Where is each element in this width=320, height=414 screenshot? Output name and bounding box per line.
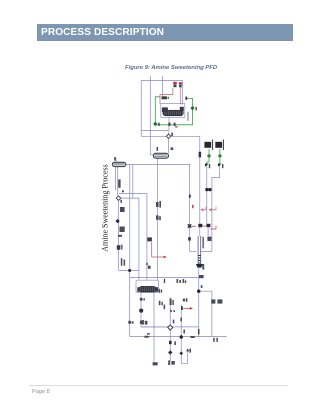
dark label N1 top [162,96,170,99]
green valve GV3 under box K1 [207,154,211,158]
label gray right of E1 [187,112,188,121]
label T above V2 [157,147,159,151]
label ticks y279 x164 [164,279,165,283]
label I above J2 [201,285,203,288]
label on x117 lower [120,227,125,233]
wire top header horizontal [141,80,183,82]
vessel V2 drum [153,153,168,158]
label arrow on y337 left [144,336,150,338]
dark valve on green top leg [185,97,187,100]
label under cone [202,264,204,270]
label small x118 y235 [118,235,122,237]
label tick y190 [122,190,124,192]
wire E2 outlet left vertical to bottom corner [141,293,168,327]
label blue at x199 y158 [199,152,202,158]
wire red drop into E1 [179,88,181,105]
label ticks y340 right [213,338,218,342]
label arrow on y337 mid [191,336,196,338]
label NL pair on y277 line [177,279,187,283]
wire from valve2 elbow [212,167,220,241]
footer rule [29,385,288,386]
column bottom cone [196,264,203,268]
label x147 arrow into E2 [146,262,148,265]
E1 right channel head [180,107,184,112]
valve diamond D2 on bleed line [168,325,173,330]
wire red dashed control top [160,88,173,104]
pump P3 dark valve [206,224,210,227]
label on x157 lower valve [156,215,159,219]
junction dot J1 [128,269,131,272]
wire x199.8 column feed [199,136,201,236]
wire column left join [190,250,197,252]
vessel V1 drum [112,162,126,166]
wire E1 bottom outlet jog to trunk [141,117,169,130]
wire green left leg [155,97,192,125]
junction dot J3 [180,335,183,338]
figure caption [125,65,217,71]
label ticks x120 y258 [121,258,123,266]
red flag label S2 [179,82,182,87]
wire x198.7 column tail to junction dot [198,268,200,337]
check valve CV1 [205,164,209,167]
green valve GV1 [153,122,157,127]
wire trunk x162 stub [161,76,163,96]
red flag label S1 [173,82,177,87]
dark valve on x189.5 y238 [188,237,191,240]
red elbow arrow at x200 [201,207,206,212]
red label on x189 [192,205,194,208]
dark round valve on x141 [139,309,143,313]
wire bottom horizontal y327 [141,326,199,328]
dark valve diamond on x117 [115,219,119,223]
heat exchanger E1 tube bundle [163,110,184,116]
label x141 L tag [140,321,143,324]
label right of navy valve [174,341,176,345]
check valve CV2 [218,164,222,167]
wire V1 outlet tee drop x129.8 [129,164,131,270]
label on x117 upper [120,207,125,212]
wire trunk x150 to V2 [150,76,153,155]
wire bottom horizontal y337 [130,336,227,338]
label right of E2 [159,289,161,293]
label feed tag right of V1 bottom lines [118,179,120,187]
wire junction drop x129.7 [129,272,131,337]
valve on x118.6 y247 [117,245,120,250]
label NL right of riser [211,299,215,303]
E2 right end cap [156,287,158,292]
wire diamond x117 trunk down [118,200,120,270]
label right of column top [207,237,211,241]
mixer diamond on trunk [166,134,171,139]
red stub at pump P3 [210,226,216,229]
wire into column right [201,241,212,251]
red arrow at x189 valve [192,225,196,227]
label x141 valve upper [140,298,145,301]
label bits y311 [170,310,175,312]
label mark x181 diamond [179,351,183,355]
label right of GV1 [158,123,160,126]
label vertical right of K2 [223,140,224,151]
wire second outlet drop x132.8 [132,164,134,198]
label right of trunk diamond [171,133,173,136]
label tick y337 mid [198,329,200,334]
green valve GV2 [190,106,194,111]
label right of D2 line [183,330,185,334]
wire x181 line to junction [181,305,187,363]
label under CV1 [209,164,210,168]
label T above V1 [114,157,116,161]
label small under diamond D3 [120,200,122,203]
wire V1 bottom to diamond [116,166,118,195]
wire red stem x151.7 [152,242,164,257]
wire left trunk vertical x141 [140,81,142,137]
label vertical right of K1 [212,140,213,151]
label pair on green bottom [168,123,170,126]
wire green K1 drop [207,149,220,167]
green recycle loop around E1 [155,97,192,125]
label on x170 top flag [170,299,172,305]
red arrow stream out E2 feed [164,256,167,259]
compressor box K1 [204,142,211,148]
label pair at x170 end [168,360,175,365]
wire elbow y198 from diamond to E2 [121,198,139,280]
label x129 valve tag [128,321,133,324]
red arrow y308 [181,306,193,310]
wire right drop from header to E1 box [182,81,184,105]
wire diamond drop to V2 [168,132,170,154]
rotated axis title [101,164,110,252]
heat exchanger E2 tube bundle [139,286,156,292]
label right of V2 drop [171,147,174,150]
label above arrow [147,333,150,334]
label on x157 upper valve [156,202,159,207]
E2 left end cap [137,287,139,292]
wire long horizontal y277.5 [130,277,199,279]
wire x170 bleed line [169,297,171,361]
wire elbow y193.5 to E2 arrow leg [119,194,147,281]
pump P2 dark valve [198,224,202,227]
dark valve diamond on x170 bottom [168,350,172,354]
wire V1 outlet long run to x189.5 [126,164,190,251]
E1 left channel head [162,107,168,112]
junction dot J2 [197,290,200,293]
header bar [37,24,293,41]
wire V2 bottom down [156,158,158,280]
label LJ box x142-148 [142,320,148,325]
column pipe shell [198,236,201,264]
green valve GV4 under box K2 [218,154,222,158]
label navy valve on x170 [169,341,172,344]
wire junction horizontal y270.4 [119,269,139,271]
valve diamond D3 feed [116,196,121,201]
footer page number [32,389,50,395]
wire mid trunk y136.5 [141,135,200,137]
label cluster left of x170 line [159,301,165,309]
dark valve on x189 [188,224,191,227]
red stub at pump P2 [202,225,206,227]
label under CV2 [222,164,223,168]
label mark on x181 above [180,318,182,322]
red elbow arrow at x208 [209,207,216,212]
compressor box K2 [215,142,222,148]
label right of arrow x187 [189,349,191,353]
label CL at x154 end [153,362,158,365]
label right of GV2 [196,107,197,110]
wire E2 bottom right down [153,293,155,362]
pump P1 [205,188,211,191]
dark valve on x146.9 [147,237,152,241]
wire pump discharge tail [207,228,209,237]
heat exchanger E2 shell box [136,280,159,292]
label arrow head at x187 up [186,348,189,351]
wire junction y291 to right riser [199,291,212,336]
wire pump line from valve1 [206,167,208,224]
label I above D2 [173,320,175,324]
label at x189 top mark [189,195,191,198]
label N1 on y277 end [199,275,204,278]
label bowtie near x184 [183,298,188,302]
red mark under E1 [175,126,177,128]
heat exchanger E1 shell box [161,104,185,118]
wire V1 top stub [115,158,117,163]
label column side text [202,237,204,249]
